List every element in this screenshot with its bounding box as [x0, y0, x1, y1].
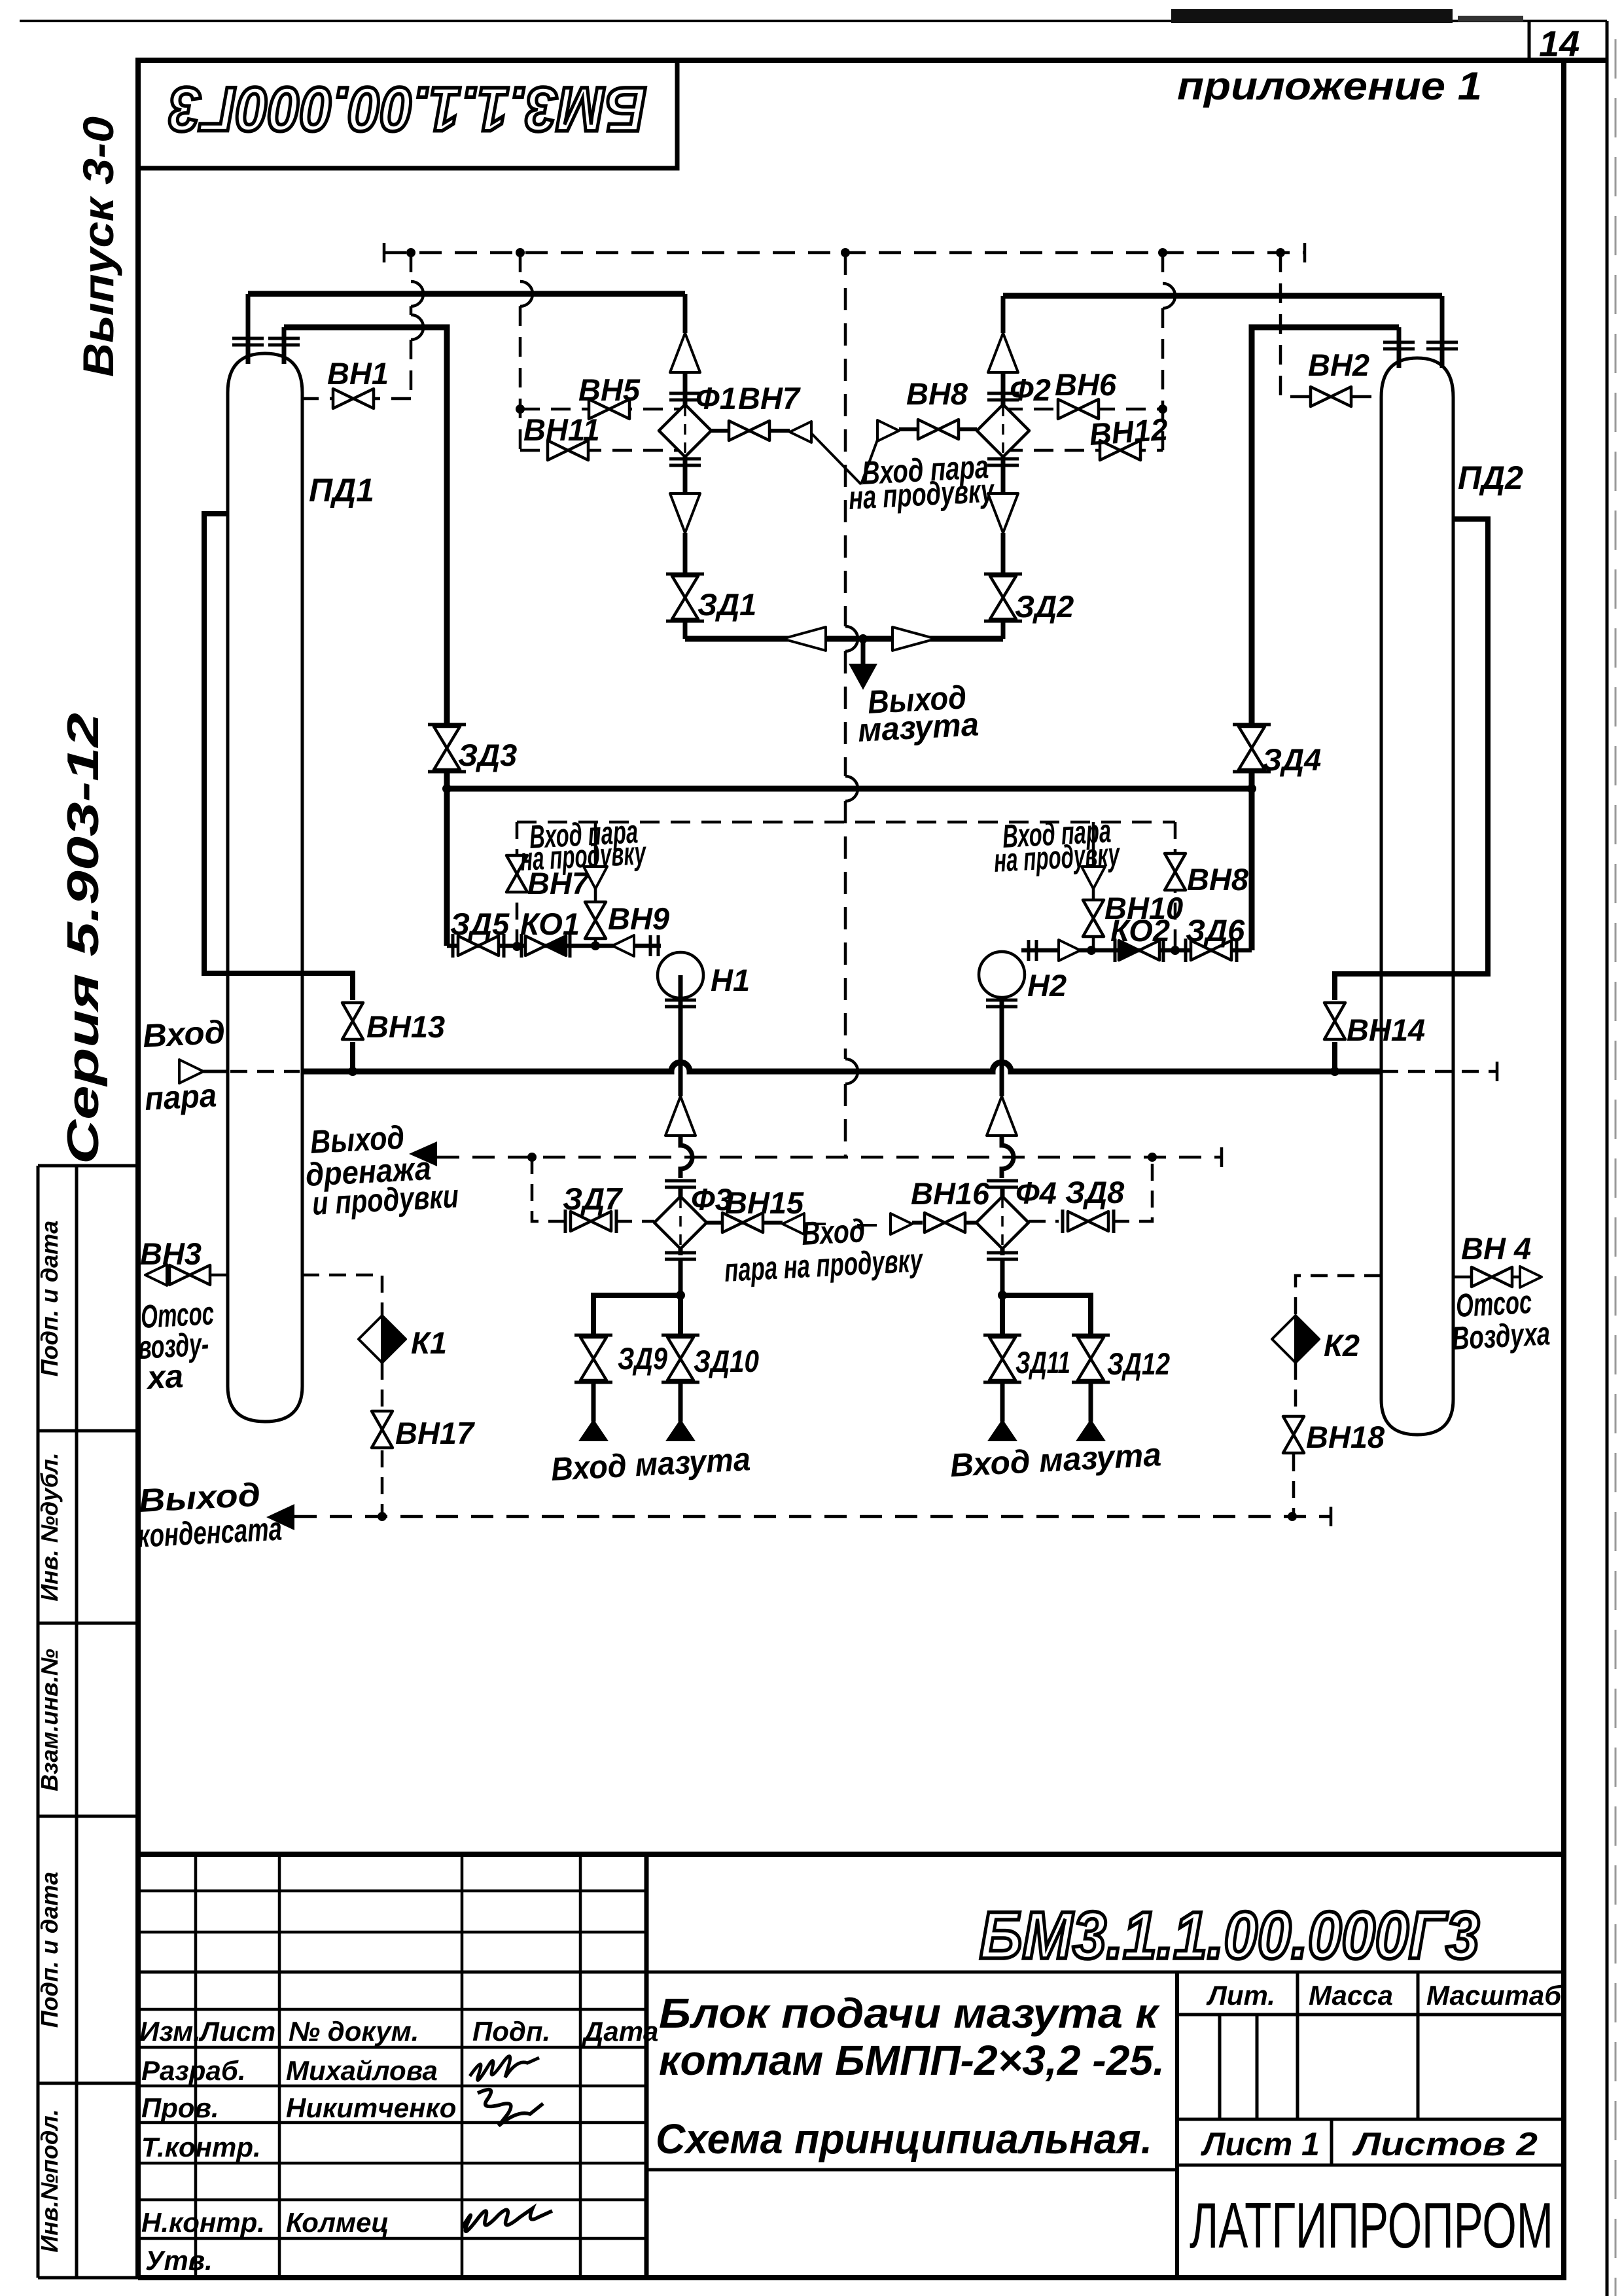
- node ВН14: [1330, 1067, 1339, 1076]
- svg-text:БМ3.1.1.00.000Г3: БМ3.1.1.00.000Г3: [980, 1898, 1479, 1973]
- valve ВН8 mid: [1165, 853, 1249, 897]
- flange pump Н1: [650, 935, 658, 956]
- title area divider: [1175, 1972, 1179, 2278]
- condensate end tick: [1330, 1507, 1333, 1526]
- vessel ПД1: [228, 353, 374, 1422]
- check valve Н2 discharge: [987, 1096, 1017, 1136]
- title block left grid columns: [196, 1854, 580, 2278]
- svg-text:14: 14: [1539, 23, 1580, 64]
- svg-text:ВН8: ВН8: [906, 376, 968, 411]
- svg-text:Вход мазута: Вход мазута: [550, 1441, 752, 1488]
- valve ВН18: [1283, 1416, 1385, 1454]
- valve ВН17: [372, 1411, 475, 1450]
- svg-text:мазута: мазута: [857, 706, 980, 749]
- nozzle ПД2 right: [1426, 296, 1458, 368]
- label Отсос воздуха left: [137, 1295, 215, 1396]
- label Выход мазута: [857, 679, 980, 749]
- dashed steam through ПД2: [1381, 1070, 1497, 1073]
- svg-text:на продувку: на продувку: [848, 472, 996, 516]
- svg-text:ЗД4: ЗД4: [1262, 742, 1321, 777]
- valve ЗД5: [450, 906, 510, 958]
- sheet number box: [1528, 21, 1531, 60]
- check valve Н1 discharge: [665, 1096, 696, 1136]
- svg-text:Схема принципиальная.: Схема принципиальная.: [656, 2115, 1152, 2162]
- svg-text:ЗД3: ЗД3: [458, 738, 517, 772]
- valve ВН14 column: [1324, 519, 1488, 1071]
- left margin cells: [38, 1166, 138, 2278]
- node fuel outlet: [858, 634, 868, 643]
- svg-text:ха: ха: [145, 1357, 185, 1396]
- filter Ф3: [654, 1181, 732, 1295]
- svg-text:Инв. №дубл.: Инв. №дубл.: [36, 1452, 63, 1602]
- node ЗД4: [1247, 784, 1256, 793]
- flow arrow left: [783, 627, 826, 651]
- svg-text:ПД1: ПД1: [309, 472, 374, 509]
- node dot ВН6 branch: [1158, 404, 1167, 414]
- label Вход пара на продувку mid-left: [520, 813, 648, 878]
- valve ВН4: [1453, 1231, 1542, 1287]
- wire suction line left: [447, 944, 661, 948]
- svg-text:К2: К2: [1324, 1328, 1360, 1363]
- node ВН8 tap: [1171, 946, 1180, 955]
- wire suction line right: [1021, 948, 1252, 953]
- dashed drop to ВН2: [1280, 253, 1381, 397]
- dashed line ВН12: [1003, 449, 1163, 452]
- valve ЗД2: [984, 574, 1074, 639]
- wire steam line: [203, 1070, 228, 1073]
- label Отсос воздуха right: [1451, 1283, 1551, 1357]
- node dots on header: [406, 248, 1285, 257]
- valve ВН7 mid: [506, 855, 590, 901]
- svg-text:№ докум.: № докум.: [289, 2016, 419, 2047]
- dashed drop to ВН6/ВН12: [1161, 253, 1165, 450]
- svg-text:Лист: Лист: [198, 2016, 275, 2047]
- dashed steam through ПД1: [230, 1070, 300, 1073]
- flow arrow right: [892, 627, 936, 651]
- svg-text:ЗД2: ЗД2: [1015, 589, 1074, 624]
- wire fuel outlet line: [685, 636, 1003, 642]
- node ЗД3: [442, 784, 451, 793]
- filter column Ф2: [977, 296, 1051, 575]
- top-left stamp box: [138, 60, 677, 168]
- branch ВН9: [584, 822, 669, 946]
- svg-text:пара на продувку: пара на продувку: [724, 1242, 925, 1289]
- svg-text:ЗД10: ЗД10: [694, 1344, 759, 1378]
- signature 3: [462, 2208, 552, 2231]
- svg-text:ЗД5: ЗД5: [450, 906, 510, 941]
- wire top pipe right lower: [1252, 327, 1399, 725]
- node ВН13: [348, 1067, 357, 1076]
- wire top pipe right upper: [1003, 293, 1442, 299]
- svg-text:Колмец: Колмец: [286, 2207, 389, 2238]
- fuel outlet drop arrow: [849, 639, 877, 690]
- dashed line ВН11: [520, 449, 680, 452]
- node ВН9 tap: [591, 941, 600, 950]
- dashed К1 branch: [302, 1275, 382, 1516]
- svg-text:ВН7: ВН7: [738, 381, 801, 416]
- node drain ЗД8: [1148, 1153, 1157, 1162]
- svg-text:ВН18: ВН18: [1306, 1420, 1385, 1454]
- dashed drop ВН7: [516, 822, 519, 946]
- svg-text:Утв.: Утв.: [145, 2245, 213, 2276]
- valve ЗД12: [1072, 1335, 1170, 1382]
- svg-text:БМ3.1.1.00.000Г3: БМ3.1.1.00.000Г3: [169, 74, 646, 144]
- valve ВН12: [1088, 412, 1169, 460]
- svg-text:К1: К1: [411, 1325, 447, 1360]
- wire discharge Н1: [680, 975, 692, 1178]
- valve ВН2: [1308, 348, 1369, 406]
- svg-text:Ф4: Ф4: [1015, 1175, 1057, 1210]
- valve ЗД10: [662, 1335, 759, 1382]
- svg-text:ВН9: ВН9: [608, 901, 669, 936]
- check valve КО1: [520, 906, 580, 958]
- svg-text:Взам.инв.№: Взам.инв.№: [36, 1649, 63, 1791]
- svg-text:Вход мазута: Вход мазута: [949, 1436, 1162, 1484]
- fuel inlet ЗД10: [665, 1382, 696, 1441]
- valve ЗД1: [666, 574, 756, 639]
- drain header end tick: [1220, 1147, 1224, 1167]
- valve ВН3: [140, 1236, 228, 1285]
- branch ВН10: [1082, 822, 1183, 950]
- dashed drop ЗД8: [1112, 1157, 1152, 1221]
- svg-text:Инв.№подл.: Инв.№подл.: [36, 2109, 63, 2252]
- valve ЗД9: [574, 1335, 667, 1382]
- лит масса масштаб grid: [646, 1972, 1564, 2170]
- sheet right edge line: [1606, 21, 1609, 2296]
- wire branch ЗД9: [593, 1295, 680, 1338]
- svg-text:ЗД7: ЗД7: [563, 1181, 623, 1216]
- nozzle ПД2 left: [1383, 327, 1415, 368]
- fuel inlet ЗД11: [987, 1382, 1017, 1441]
- svg-text:Серия 5.903-12: Серия 5.903-12: [58, 713, 108, 1164]
- flange Н1 discharge: [665, 1000, 696, 1007]
- steam inlet leader left: [811, 433, 861, 484]
- label Выход дренажа и продувки: [305, 1119, 460, 1222]
- label Вход пара: [142, 1013, 226, 1117]
- faint scan line: [1615, 39, 1617, 2296]
- title block top line: [138, 1852, 1564, 1857]
- svg-text:ВН16: ВН16: [911, 1176, 990, 1211]
- svg-text:и продувки: и продувки: [311, 1177, 460, 1222]
- svg-text:ЛАТГИПРОПРОМ: ЛАТГИПРОПРОМ: [1190, 2189, 1553, 2261]
- dashed purge header bottom (дренаж): [437, 1156, 1222, 1159]
- trap К1: [359, 1316, 447, 1363]
- valve ВН7 top: [711, 381, 811, 442]
- valve ВН6: [1055, 367, 1117, 419]
- svg-text:Подп. и дата: Подп. и дата: [36, 1872, 63, 2028]
- svg-text:Изм.: Изм.: [139, 2016, 201, 2047]
- valve ВН13 column: [204, 514, 445, 1071]
- svg-text:Блок подачи мазута к: Блок подачи мазута к: [659, 1990, 1161, 2037]
- svg-text:ЗД12: ЗД12: [1107, 1346, 1170, 1381]
- svg-text:Листов 2: Листов 2: [1352, 2126, 1538, 2162]
- svg-text:Ф1: Ф1: [696, 381, 737, 416]
- svg-text:ВН5: ВН5: [578, 372, 641, 407]
- check valve КО2: [1110, 913, 1170, 962]
- svg-text:Вход: Вход: [142, 1013, 226, 1054]
- node К2 condensate: [1288, 1512, 1297, 1521]
- svg-text:ВН3: ВН3: [140, 1236, 202, 1271]
- svg-text:Ф2: Ф2: [1010, 372, 1051, 407]
- svg-text:ВН2: ВН2: [1308, 348, 1369, 382]
- dashed condensate line: [294, 1515, 1331, 1518]
- dashed centre line: [844, 253, 847, 1157]
- title block row 3013: [138, 1971, 1564, 1974]
- wire top pipe left lower: [284, 327, 447, 725]
- svg-text:ВН12: ВН12: [1088, 412, 1169, 452]
- flange pump Н2: [1029, 940, 1036, 961]
- svg-text:Лист 1: Лист 1: [1201, 2126, 1320, 2162]
- svg-text:пара: пара: [144, 1077, 218, 1117]
- svg-text:Масса: Масса: [1309, 1980, 1393, 2011]
- svg-text:ВН13: ВН13: [366, 1009, 445, 1044]
- dashed link ЗД7 to Ф3: [615, 1220, 654, 1223]
- valve ВН8 top: [877, 376, 977, 441]
- nozzle ПД1 left: [232, 294, 264, 364]
- valve ЗД11: [983, 1335, 1070, 1382]
- dashed purge header mid: [517, 821, 1175, 824]
- junction Ф4 bottom: [998, 1291, 1007, 1300]
- trap К2: [1272, 1316, 1360, 1363]
- svg-text:конденсата: конденсата: [137, 1510, 283, 1554]
- svg-text:Пров.: Пров.: [141, 2092, 219, 2123]
- svg-text:ВН11: ВН11: [523, 412, 600, 447]
- svg-text:Подп.: Подп.: [472, 2016, 550, 2047]
- valve ЗД8: [1063, 1175, 1125, 1233]
- svg-text:Н1: Н1: [711, 963, 750, 997]
- header end ticks: [384, 243, 1305, 262]
- wire discharge Н2: [1002, 975, 1014, 1178]
- valve ЗД6: [1186, 913, 1245, 962]
- flow arrow suction left: [612, 935, 634, 956]
- valve ВН1: [327, 356, 389, 408]
- svg-text:Воздуха: Воздуха: [1451, 1315, 1551, 1357]
- valve ВН15: [707, 1185, 826, 1234]
- scan dark band top right: [1171, 9, 1453, 23]
- pump Н1: [658, 952, 750, 998]
- svg-text:на продувку: на продувку: [520, 834, 648, 878]
- svg-text:ПД2: ПД2: [1458, 459, 1523, 496]
- label Вход пара на продувку top: [848, 448, 996, 516]
- node ВН7 tap: [512, 942, 521, 951]
- svg-text:ВН14: ВН14: [1347, 1013, 1425, 1047]
- svg-text:Никитченко: Никитченко: [286, 2092, 456, 2123]
- valve ЗД4: [1233, 725, 1321, 777]
- dashed К2 branch: [1294, 1276, 1381, 1516]
- condensate outlet arrow: [266, 1504, 294, 1530]
- dashed line ВН6: [1003, 408, 1163, 411]
- svg-text:ВН17: ВН17: [395, 1416, 475, 1450]
- svg-text:ЗД9: ЗД9: [618, 1341, 667, 1376]
- label Вход пара на продувку mid-right: [993, 812, 1121, 879]
- label Выход конденсата: [137, 1476, 283, 1554]
- node drain ЗД7: [527, 1153, 537, 1162]
- signature 2: [478, 2090, 543, 2126]
- svg-text:Дата: Дата: [582, 2016, 658, 2047]
- signature 1: [470, 2056, 539, 2080]
- node ВН10 tap: [1087, 946, 1096, 955]
- fuel inlet ЗД12: [1076, 1382, 1106, 1441]
- svg-text:ЗД6: ЗД6: [1186, 913, 1245, 948]
- dashed link Ф4 to ЗД8: [1029, 1220, 1059, 1223]
- svg-text:Лит.: Лит.: [1206, 1980, 1275, 2011]
- flange Н2 discharge: [986, 1000, 1017, 1007]
- svg-text:приложение 1: приложение 1: [1177, 64, 1482, 108]
- valve ЗД7: [563, 1181, 623, 1233]
- dashed drop to ВН5/ВН11: [519, 253, 522, 450]
- svg-text:ВН15: ВН15: [725, 1185, 804, 1220]
- wire steam main: [302, 1062, 1381, 1071]
- svg-text:ЗД8: ЗД8: [1065, 1175, 1125, 1210]
- valve ВН16: [857, 1176, 990, 1234]
- nozzle ПД1 right: [268, 327, 300, 364]
- svg-text:Выпуск 3-0: Выпуск 3-0: [74, 117, 122, 377]
- wire branch ЗД12: [1002, 1295, 1091, 1338]
- dashed drop ЗД7: [532, 1157, 568, 1221]
- flow arrow suction right: [1059, 940, 1080, 961]
- svg-text:ВН10: ВН10: [1104, 891, 1183, 925]
- dashed steam header top: [384, 251, 1305, 255]
- dashed line ВН5: [520, 408, 685, 411]
- svg-text:ВН6: ВН6: [1055, 367, 1117, 402]
- sheet top edge line: [20, 20, 1607, 22]
- svg-text:ЗД11: ЗД11: [1015, 1345, 1070, 1380]
- svg-text:Разраб.: Разраб.: [141, 2055, 246, 2086]
- dashed drop to ВН1: [302, 253, 411, 399]
- valve ВН5: [578, 372, 641, 419]
- wire manifold: [447, 772, 1252, 950]
- pump Н2: [979, 952, 1067, 1003]
- filter column Ф1: [659, 294, 737, 575]
- label Вход пара на продувку bottom: [724, 1212, 925, 1289]
- junction Ф3 bottom: [676, 1291, 685, 1300]
- steam inlet arrow: [179, 1060, 203, 1083]
- fuel inlet ЗД9: [578, 1382, 609, 1441]
- dashed drop ВН8: [1174, 822, 1177, 950]
- svg-text:на продувку: на продувку: [993, 836, 1121, 879]
- svg-text:Михайлова: Михайлова: [286, 2055, 438, 2086]
- svg-text:КО1: КО1: [520, 906, 580, 941]
- node dot ВН5 branch: [516, 404, 525, 414]
- valve ВН11: [523, 412, 600, 460]
- svg-text:ВН 4: ВН 4: [1461, 1231, 1531, 1266]
- steam inlet leader right: [861, 435, 879, 484]
- svg-text:котлам БМПП-2×3,2 -25.: котлам БМПП-2×3,2 -25.: [659, 2037, 1165, 2084]
- steam line end tick: [1496, 1062, 1499, 1081]
- title block left grid rows: [138, 1891, 646, 2238]
- svg-text:Масштаб: Масштаб: [1426, 1980, 1562, 2011]
- title block thick divider: [644, 1854, 649, 2278]
- filter Ф4: [976, 1175, 1057, 1295]
- svg-text:Подп. и дата: Подп. и дата: [36, 1221, 63, 1376]
- svg-text:Н2: Н2: [1027, 968, 1067, 1003]
- svg-text:ВН1: ВН1: [327, 356, 389, 391]
- drain outlet arrow: [409, 1141, 437, 1166]
- svg-text:ЗД1: ЗД1: [697, 587, 756, 622]
- node К1 condensate: [378, 1512, 387, 1521]
- svg-text:Н.контр.: Н.контр.: [141, 2207, 265, 2238]
- svg-text:Т.контр.: Т.контр.: [141, 2132, 261, 2162]
- wire top pipe left upper: [248, 291, 685, 297]
- vessel ПД2: [1381, 358, 1523, 1435]
- valve ЗД3: [428, 725, 517, 772]
- svg-text:ВН8: ВН8: [1187, 862, 1249, 897]
